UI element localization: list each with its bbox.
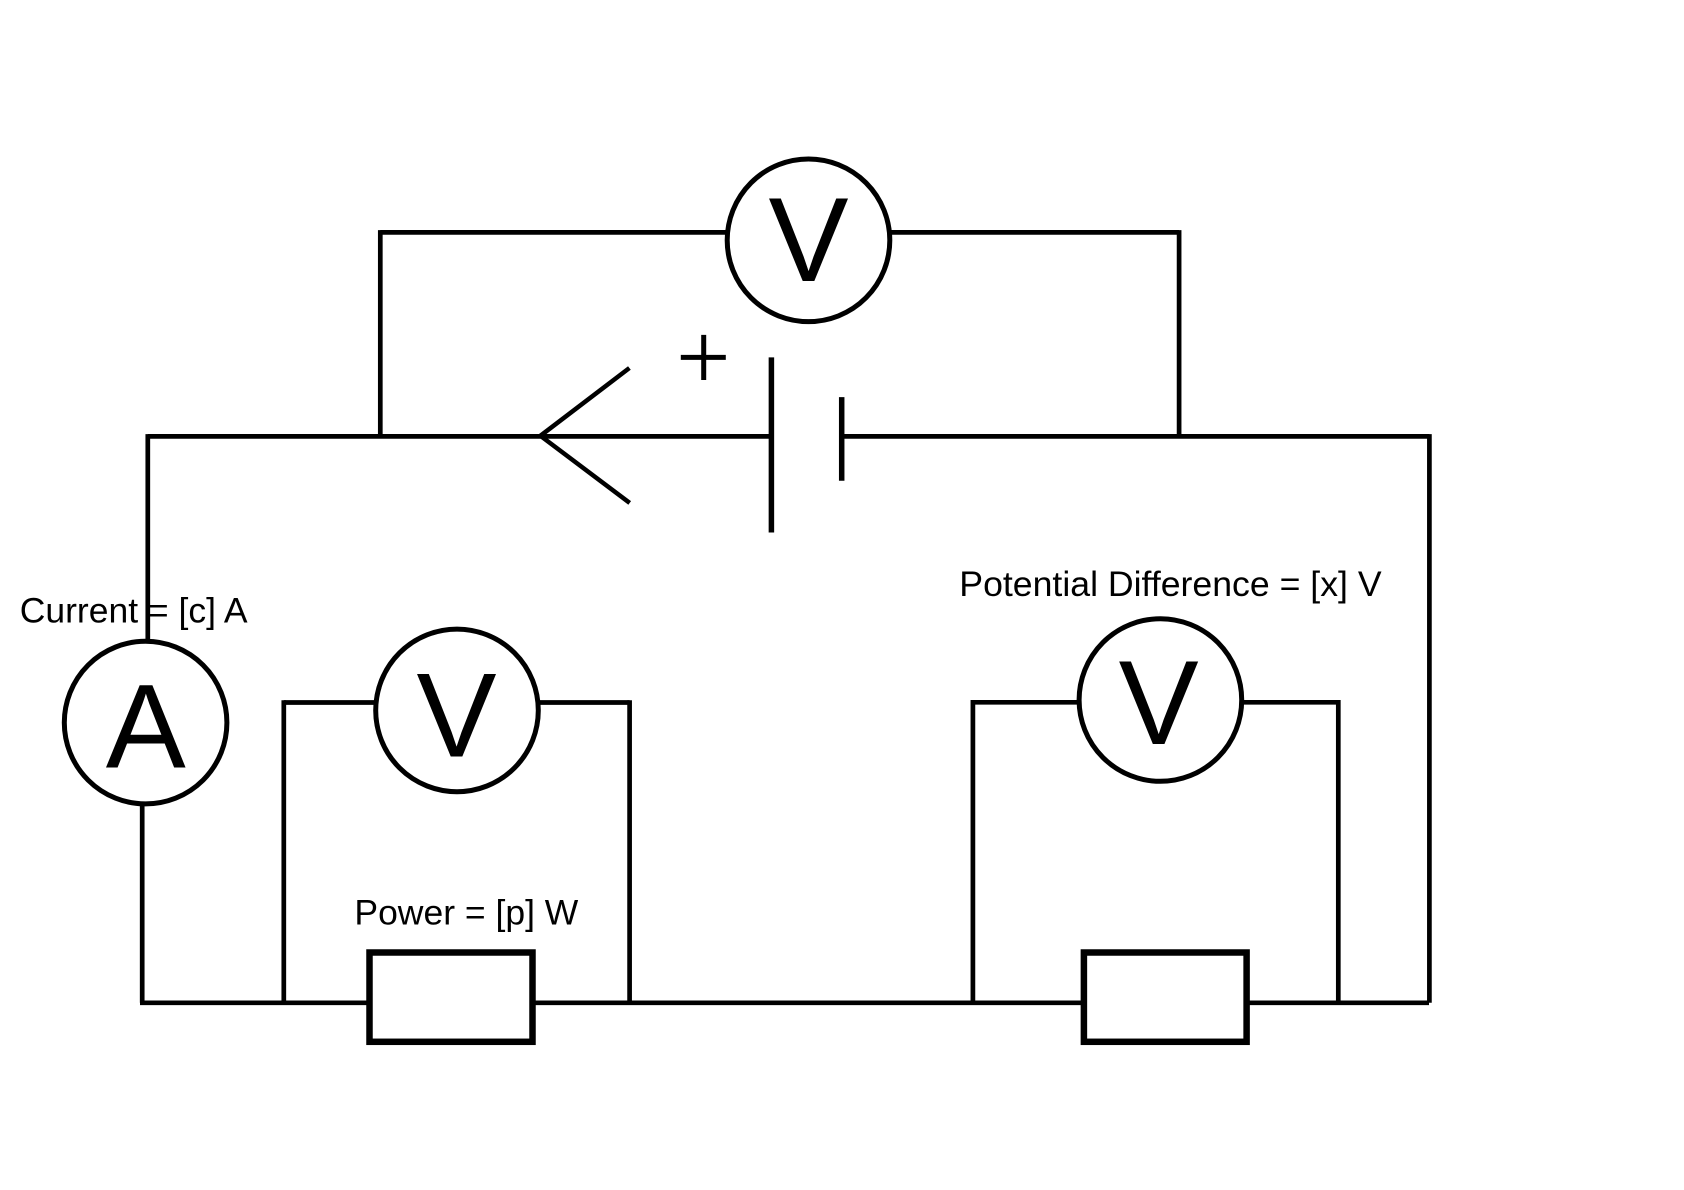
svg-text:Potential Difference = [x] V: Potential Difference = [x] V <box>959 564 1382 604</box>
svg-text:Power = [p] W: Power = [p] W <box>354 893 578 933</box>
svg-text:Current = [c] A: Current = [c] A <box>20 591 248 631</box>
svg-text:V: V <box>416 649 496 783</box>
svg-text:V: V <box>768 173 848 307</box>
svg-text:V: V <box>1119 636 1199 770</box>
svg-text:A: A <box>106 660 186 794</box>
